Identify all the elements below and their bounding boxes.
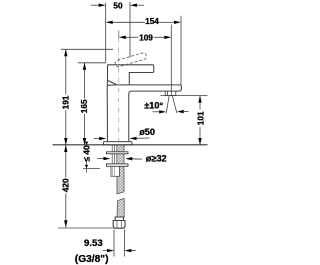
lever raised position (dashed) bbox=[114, 52, 147, 67]
svg-text:191: 191 bbox=[60, 95, 70, 109]
washer plate 1 bbox=[107, 152, 129, 154]
svg-text:420: 420 bbox=[60, 178, 70, 192]
base flange bbox=[103, 142, 132, 145]
mounting nut on stud bbox=[111, 166, 119, 176]
centerline bbox=[118, 31, 120, 38]
hose end collar bbox=[115, 217, 123, 221]
dimension <=40 (vertical) bbox=[83, 162, 100, 173]
aerator at spout end bbox=[165, 91, 176, 96]
dimension 109 bbox=[126, 25, 172, 96]
threaded stud under deck bbox=[112, 145, 114, 166]
svg-text:154: 154 bbox=[145, 16, 159, 26]
dimension o50 (base diameter) bbox=[94, 137, 150, 140]
svg-text:(G3/8"): (G3/8") bbox=[75, 254, 109, 265]
dimension 9.53 (G3/8) bbox=[103, 230, 136, 257]
body top line from wedge to spout bbox=[117, 84, 129, 86]
svg-text:165: 165 bbox=[79, 99, 89, 113]
svg-text:109: 109 bbox=[139, 32, 153, 42]
washer plate 2 (mounting plate) bbox=[107, 164, 129, 166]
dimension 154 bbox=[113, 16, 182, 85]
dimension o>=32 (hole) bbox=[98, 158, 142, 161]
lever blade (solid position) bbox=[107, 65, 154, 142]
braided hose upper segment bbox=[117, 145, 124, 194]
hose end nut (G3/8) bbox=[113, 221, 125, 229]
svg-text:50: 50 bbox=[113, 0, 123, 10]
lever front edge and wedge tip bbox=[107, 65, 117, 142]
svg-text:ø50: ø50 bbox=[139, 127, 155, 137]
dimension 191 (vertical, left) bbox=[61, 49, 113, 145]
braided hose lower segment bbox=[117, 198, 124, 217]
dimension 165 (vertical) bbox=[78, 63, 106, 145]
deck line bbox=[53, 144, 208, 146]
spray angle +-10 deg fan bbox=[153, 96, 189, 114]
spout arm and body column bbox=[129, 85, 182, 142]
svg-text:9.53: 9.53 bbox=[84, 238, 103, 249]
svg-text:101: 101 bbox=[196, 111, 206, 125]
dimension 101 (vertical, right) bbox=[161, 96, 208, 145]
svg-text:≤ 40: ≤ 40 bbox=[81, 145, 91, 162]
dimension 50 (top) bbox=[91, 2, 144, 63]
svg-text:±10°: ±10° bbox=[144, 101, 163, 111]
svg-text:ø≥32: ø≥32 bbox=[146, 153, 167, 163]
dimension 420 (vertical) bbox=[58, 145, 113, 228]
